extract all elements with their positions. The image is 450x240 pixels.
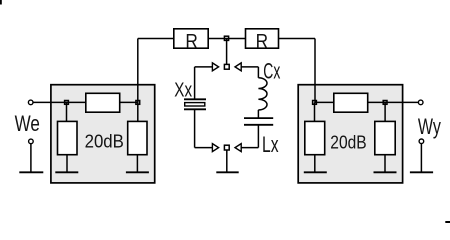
svg-text:20dB: 20dB — [330, 131, 366, 152]
svg-text:Lx: Lx — [262, 132, 279, 157]
svg-text:Xx: Xx — [174, 78, 192, 101]
svg-text:R: R — [256, 30, 269, 53]
svg-text:Wy: Wy — [418, 114, 441, 139]
svg-text:Cx: Cx — [263, 58, 280, 83]
svg-text:We: We — [15, 111, 40, 136]
svg-text:20dB: 20dB — [85, 131, 124, 152]
svg-text:R: R — [185, 30, 198, 53]
